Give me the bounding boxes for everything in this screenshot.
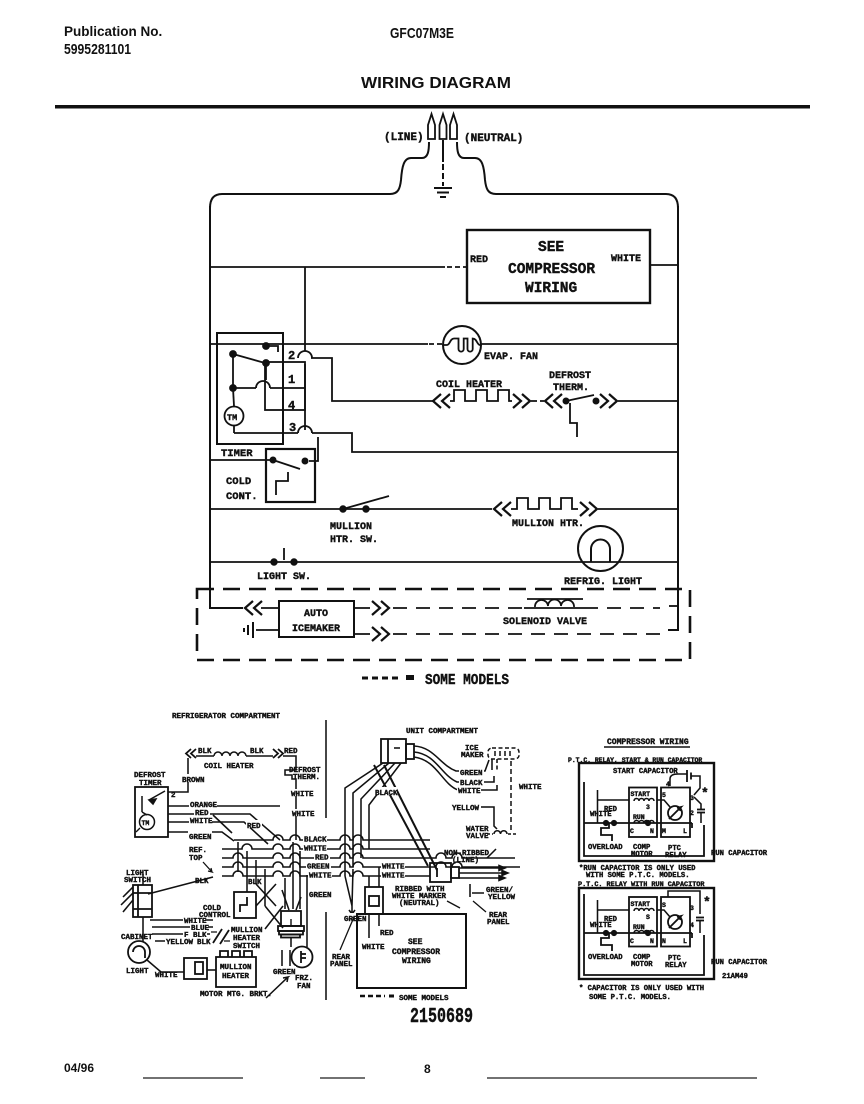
svg-text:SWITCH: SWITCH bbox=[233, 943, 260, 951]
svg-text:MULLION: MULLION bbox=[231, 927, 263, 935]
wire color labels cluster bbox=[165, 916, 211, 947]
svg-text:HEATER: HEATER bbox=[222, 973, 250, 981]
svg-text:START: START bbox=[631, 901, 651, 908]
svg-text:COIL HEATER: COIL HEATER bbox=[436, 380, 502, 391]
connector feed stubs bbox=[369, 867, 379, 887]
note 2 bbox=[579, 985, 704, 1002]
label NON-RIBBED (LINE) bbox=[444, 850, 490, 865]
connector chevron coil heater left bbox=[186, 749, 196, 758]
overload element 1 bbox=[601, 823, 612, 841]
pointer to plug bbox=[487, 849, 496, 858]
svg-text:COIL HEATER: COIL HEATER bbox=[204, 763, 254, 771]
label SEE COMPRESSOR WIRING lower bbox=[392, 938, 440, 966]
svg-text:SWITCH: SWITCH bbox=[124, 877, 151, 885]
fan mounting bracket bbox=[282, 950, 290, 970]
svg-text:YELLOW: YELLOW bbox=[488, 894, 516, 902]
white entry wire 1 bbox=[598, 790, 630, 823]
connector chevrons defrost right bbox=[600, 394, 617, 408]
svg-text:UNIT COMPARTMENT: UNIT COMPARTMENT bbox=[406, 728, 479, 736]
svg-text:COLD: COLD bbox=[226, 476, 251, 488]
label DEFROST THERM. bbox=[549, 371, 591, 394]
bundle color labels bbox=[303, 834, 405, 881]
header publication no bbox=[64, 24, 162, 58]
note 1 bbox=[579, 865, 696, 880]
terminal numbers bbox=[288, 349, 296, 435]
svg-text:COMPRESSOR: COMPRESSOR bbox=[508, 262, 595, 278]
svg-text:BLACK: BLACK bbox=[375, 790, 398, 798]
svg-text:WHITE: WHITE bbox=[590, 811, 612, 819]
see compressor wiring box bbox=[467, 230, 650, 303]
auto icemaker box bbox=[279, 601, 354, 637]
wires to switch cluster bbox=[150, 920, 213, 941]
svg-text:(LINE): (LINE) bbox=[384, 132, 424, 144]
run winding coil 2 bbox=[634, 931, 654, 934]
svg-text:COMPRESSOR WIRING: COMPRESSOR WIRING bbox=[607, 738, 689, 747]
timer contacts bbox=[230, 343, 278, 433]
compartment divider line upper bbox=[325, 720, 327, 818]
svg-text:L: L bbox=[683, 828, 687, 835]
svg-text:WHITE: WHITE bbox=[155, 972, 178, 980]
start winding coil 1 bbox=[634, 799, 654, 802]
svg-text:C: C bbox=[630, 938, 634, 945]
main wire row 2 bbox=[584, 931, 692, 938]
svg-text:WHITE: WHITE bbox=[611, 254, 641, 265]
ptc relay box 1 bbox=[661, 788, 690, 838]
icemaker dashed connector bbox=[488, 748, 519, 759]
timer output wire red bbox=[168, 814, 280, 840]
plug prong ground bbox=[440, 114, 447, 139]
svg-text:2: 2 bbox=[288, 349, 295, 363]
evap fan motor bbox=[443, 326, 481, 364]
start row link to ptc 2 bbox=[657, 910, 670, 917]
main wire row 1 bbox=[584, 821, 692, 828]
cold control box bbox=[266, 449, 315, 502]
water valve coil dashed bbox=[487, 831, 516, 834]
ptc disc 2 bbox=[668, 915, 682, 929]
svg-text:VALVE: VALVE bbox=[466, 833, 489, 841]
label AUTO ICEMAKER bbox=[292, 609, 340, 635]
svg-text:3: 3 bbox=[690, 795, 694, 802]
label WATER VALVE bbox=[466, 826, 489, 841]
svg-text:5995281101: 5995281101 bbox=[64, 42, 131, 58]
timer output wire white bbox=[168, 822, 268, 844]
svg-text:MOTOR: MOTOR bbox=[631, 961, 653, 969]
svg-text:TM: TM bbox=[142, 820, 150, 827]
svg-text:BLK: BLK bbox=[198, 748, 212, 756]
svg-text:21AM49: 21AM49 bbox=[722, 973, 748, 981]
svg-text:* CAPACITOR IS ONLY USED WITH: * CAPACITOR IS ONLY USED WITH bbox=[579, 985, 704, 993]
component labels 2 bbox=[588, 954, 768, 981]
wire evap fan row left bbox=[210, 343, 443, 345]
cabinet outline right edge bbox=[668, 206, 678, 630]
wire into icemaker bbox=[261, 607, 279, 609]
compartment divider line lower bbox=[325, 912, 327, 1000]
svg-text:WIRING: WIRING bbox=[402, 957, 431, 966]
pointer neutral bbox=[447, 901, 460, 908]
footer bottom rule bbox=[143, 1077, 757, 1079]
ground symbol at cord bbox=[434, 188, 452, 197]
svg-text:CONTROL: CONTROL bbox=[199, 912, 231, 920]
label DEFROST THERM. lower bbox=[289, 767, 321, 782]
icemaker ground wire bbox=[256, 629, 279, 631]
svg-text:GREEN: GREEN bbox=[344, 916, 367, 924]
svg-text:RUN: RUN bbox=[633, 814, 645, 821]
svg-text:GREEN: GREEN bbox=[309, 892, 332, 900]
svg-text:BLK: BLK bbox=[197, 939, 211, 947]
label DEFROST TIMER bbox=[134, 772, 166, 788]
svg-text:COMPRESSOR: COMPRESSOR bbox=[392, 948, 440, 957]
svg-text:HEATER: HEATER bbox=[233, 935, 261, 943]
connector chevrons coil heater right bbox=[513, 394, 530, 408]
wire bundle row white2 bbox=[222, 871, 430, 876]
compressor shell outline 1 bbox=[584, 782, 704, 856]
mullion heater switch bbox=[340, 496, 389, 512]
label GREEN/YELLOW with tick bbox=[486, 887, 516, 902]
defrost thermostat bracket bbox=[570, 403, 577, 437]
connector stubs into compressor box bbox=[369, 914, 379, 938]
svg-text:(NEUTRAL): (NEUTRAL) bbox=[399, 900, 440, 908]
svg-text:N: N bbox=[662, 938, 666, 945]
comp motor box 2 bbox=[629, 897, 657, 947]
label MULLION HEATER SWITCH bbox=[231, 927, 263, 951]
svg-text:PANEL: PANEL bbox=[330, 961, 353, 969]
terminal hop arcs bbox=[256, 351, 312, 433]
svg-text:MULLION: MULLION bbox=[330, 522, 372, 533]
svg-text:REF.: REF. bbox=[189, 847, 207, 855]
timer motor TM bbox=[225, 407, 244, 426]
defrost thermostat switch bbox=[563, 395, 599, 404]
wire to defrost thermostat bbox=[531, 400, 544, 402]
svg-text:M: M bbox=[662, 828, 666, 835]
wire connector to heater bbox=[207, 969, 216, 971]
label WHITE on drop bbox=[290, 789, 315, 819]
plug prong NEUTRAL bbox=[450, 114, 457, 139]
top jumper wire 2 bbox=[668, 891, 700, 914]
overload element 2 bbox=[601, 933, 612, 951]
power cord outline into cabinet bbox=[210, 140, 678, 208]
svg-text:REFRIG. LIGHT: REFRIG. LIGHT bbox=[564, 577, 642, 588]
svg-text:TIMER: TIMER bbox=[221, 448, 253, 460]
wire cabinet light to connector bbox=[147, 960, 184, 972]
svg-text:*: * bbox=[703, 895, 711, 910]
label GREEN bbox=[188, 831, 212, 842]
dashed wire return row bbox=[393, 633, 668, 635]
svg-text:MULLION HTR.: MULLION HTR. bbox=[512, 519, 584, 530]
wire icemaker box to arrows bbox=[354, 608, 370, 634]
compressor shell outline 2 bbox=[584, 894, 704, 975]
svg-text:DEFROST: DEFROST bbox=[134, 772, 166, 780]
dashed wire solenoid row bbox=[393, 606, 678, 608]
wire line row to compressor box bbox=[210, 266, 466, 268]
run capacitor symbol 2 bbox=[696, 918, 704, 934]
svg-text:MOTOR: MOTOR bbox=[631, 851, 653, 859]
svg-text:5: 5 bbox=[662, 792, 666, 799]
svg-text:8: 8 bbox=[424, 1062, 431, 1076]
svg-text:RUN CAPACITOR: RUN CAPACITOR bbox=[711, 959, 768, 967]
wire drop to cold control bbox=[309, 437, 318, 461]
cabinet light bbox=[128, 941, 150, 963]
wire white drop bbox=[295, 782, 297, 840]
timer output wire orange bbox=[168, 805, 280, 807]
svg-text:ICEMAKER: ICEMAKER bbox=[292, 624, 340, 635]
label ORANGE bbox=[189, 800, 218, 810]
svg-text:N: N bbox=[650, 938, 654, 945]
white entry wire 2 bbox=[598, 900, 630, 933]
wire bundle row red bbox=[222, 853, 515, 858]
wire bundle row black bbox=[234, 835, 430, 840]
svg-text:SOME MODELS: SOME MODELS bbox=[399, 995, 449, 1003]
svg-text:AUTO: AUTO bbox=[304, 609, 328, 620]
label MULLION HTR. SW. bbox=[330, 522, 378, 546]
svg-text:GFC07M3E: GFC07M3E bbox=[390, 25, 454, 42]
svg-text:WITH SOME P.T.C. MODELS.: WITH SOME P.T.C. MODELS. bbox=[586, 872, 690, 880]
svg-text:1: 1 bbox=[288, 373, 295, 387]
svg-text:SEE: SEE bbox=[538, 240, 564, 256]
connector chevrons coil heater left bbox=[433, 394, 450, 408]
black mains diagonal pair bbox=[374, 765, 437, 870]
bundle vertical drops bbox=[238, 842, 307, 947]
label COLD CONTROL bbox=[199, 905, 231, 920]
label REF. TOP with pointer bbox=[189, 847, 207, 863]
compressor box 1 bbox=[579, 763, 714, 861]
refrigerator light bbox=[578, 526, 623, 571]
svg-text:WHITE: WHITE bbox=[362, 944, 385, 952]
label YELLOW with dash bbox=[452, 805, 497, 829]
svg-text:BLK: BLK bbox=[195, 878, 209, 886]
ptc relay box 2 bbox=[661, 897, 690, 947]
wire defrost to right edge bbox=[618, 400, 678, 402]
svg-text:SOLENOID VALVE: SOLENOID VALVE bbox=[503, 617, 587, 628]
svg-text:3: 3 bbox=[690, 905, 694, 912]
funnel diagonals into connector bbox=[282, 890, 301, 910]
unit compartment connector bbox=[381, 739, 414, 763]
mullion heater box bbox=[216, 951, 256, 987]
icemaker ground symbol bbox=[244, 622, 253, 638]
bundle wires from connector down-left bbox=[345, 763, 401, 876]
legend some models lower bbox=[360, 995, 449, 1004]
svg-text:OVERLOAD: OVERLOAD bbox=[588, 844, 623, 852]
start row link to ptc 1 bbox=[657, 800, 670, 807]
connector chevron coil heater right bbox=[273, 749, 283, 758]
svg-text:FAN: FAN bbox=[297, 983, 311, 991]
label ICE MAKER bbox=[461, 745, 484, 760]
see compressor wiring box lower bbox=[357, 914, 466, 988]
wire mullion to right edge bbox=[598, 508, 678, 510]
wire mullion heater row bbox=[210, 508, 492, 510]
start winding coil 2 bbox=[634, 909, 654, 912]
svg-text:SOME P.T.C. MODELS.: SOME P.T.C. MODELS. bbox=[589, 994, 671, 1002]
svg-text:S: S bbox=[646, 914, 650, 921]
cold control box lower bbox=[234, 892, 256, 918]
compressor box 2 bbox=[579, 888, 714, 979]
wire timer contact 3 row bbox=[234, 433, 678, 452]
svg-text:THERM.: THERM. bbox=[293, 774, 320, 782]
timer terminal block bbox=[265, 362, 305, 410]
center connector over compressor box bbox=[365, 887, 383, 914]
wire labels 2 bbox=[590, 916, 618, 930]
label BLACK bbox=[374, 787, 398, 798]
svg-text:FRZ.: FRZ. bbox=[295, 975, 313, 983]
wire color labels icemaker fan bbox=[457, 768, 484, 796]
svg-text:WHITE: WHITE bbox=[309, 873, 332, 881]
svg-text:RED: RED bbox=[247, 823, 261, 831]
wire light switch row bbox=[210, 561, 678, 563]
wire bundle row white1 bbox=[222, 844, 430, 849]
defrost thermostat symbol bbox=[285, 767, 296, 782]
svg-text:START CAPACITOR: START CAPACITOR bbox=[613, 768, 678, 776]
light switch diagonal feed bbox=[148, 877, 213, 894]
timer box bbox=[217, 333, 283, 444]
motor winding labels 2 bbox=[630, 901, 694, 945]
svg-text:RED: RED bbox=[284, 748, 298, 756]
svg-text:OVERLOAD: OVERLOAD bbox=[588, 954, 623, 962]
label GREEN center bbox=[343, 913, 368, 924]
label SEE COMPRESSOR WIRING bbox=[508, 240, 595, 297]
svg-text:REFRIGERATOR COMPARTMENT: REFRIGERATOR COMPARTMENT bbox=[172, 713, 281, 721]
wire brown drop from chevron bbox=[168, 758, 188, 792]
connector chevrons icemaker bbox=[245, 601, 262, 615]
defrost timer cam contact bbox=[142, 791, 165, 815]
svg-text:MAKER: MAKER bbox=[461, 752, 484, 760]
coil heater element bbox=[450, 390, 512, 401]
molex connector above fan bbox=[278, 911, 304, 947]
mullion heater switch symbol bbox=[211, 929, 230, 944]
light switch bbox=[271, 548, 297, 565]
svg-text:C: C bbox=[630, 828, 634, 835]
label RED mid bbox=[246, 820, 262, 831]
cabinet outline left edge bbox=[210, 206, 243, 608]
svg-text:SEE: SEE bbox=[408, 938, 423, 947]
svg-text:LIGHT SW.: LIGHT SW. bbox=[257, 572, 311, 583]
svg-text:RED: RED bbox=[470, 255, 488, 266]
svg-text:WIRING DIAGRAM: WIRING DIAGRAM bbox=[361, 75, 511, 92]
connector chevrons defrost left bbox=[545, 394, 562, 408]
mullion heater element bbox=[511, 498, 578, 509]
label WHITE bbox=[189, 816, 213, 826]
legend some models bbox=[362, 672, 509, 689]
svg-text:GREEN: GREEN bbox=[460, 770, 483, 778]
svg-text:BLK: BLK bbox=[248, 879, 262, 887]
label MULLION HEATER inside bbox=[220, 964, 252, 981]
label RED bbox=[194, 808, 210, 818]
wire light switch to feed row bbox=[142, 874, 144, 885]
timer output wire green bbox=[168, 832, 234, 841]
icemaker dashed return bbox=[510, 761, 512, 831]
svg-text:TOP: TOP bbox=[189, 855, 203, 863]
label GREEN mid-left bbox=[308, 889, 333, 900]
svg-text:RED: RED bbox=[380, 930, 394, 938]
icemaker output arrows row2 bbox=[372, 627, 389, 641]
wire evap fan row right bbox=[481, 343, 678, 345]
component labels 1 bbox=[588, 844, 768, 860]
label GREEN with arrow to fan bbox=[266, 966, 296, 998]
label REAR PANEL left with pointer bbox=[330, 954, 353, 969]
wire from timer terminal 2 down to heater row bbox=[311, 358, 433, 401]
fan of wires to icemaker area bbox=[414, 746, 497, 790]
wire labels 1 bbox=[590, 806, 618, 819]
coil heater resistor bbox=[214, 752, 246, 756]
svg-text:RELAY: RELAY bbox=[665, 852, 687, 860]
svg-text:RUN CAPACITOR: RUN CAPACITOR bbox=[711, 850, 768, 858]
svg-text:PANEL: PANEL bbox=[487, 919, 510, 927]
some models dashed enclosure bbox=[197, 589, 690, 660]
icemaker output arrows row1 bbox=[372, 601, 389, 615]
svg-text:WHITE: WHITE bbox=[458, 788, 481, 796]
comp motor box 1 bbox=[629, 788, 657, 838]
connector block left bbox=[184, 958, 207, 979]
plug output wires with arrows bbox=[459, 866, 508, 881]
run capacitor symbol 1 bbox=[694, 797, 705, 823]
solenoid valve coil bbox=[524, 599, 584, 608]
crossing diagonals bbox=[213, 815, 283, 929]
header rule bbox=[55, 105, 810, 109]
svg-text:YELLOW: YELLOW bbox=[452, 805, 480, 813]
defrost timer box bbox=[135, 787, 168, 837]
svg-text:*: * bbox=[701, 786, 709, 801]
label FRZ. FAN bbox=[295, 975, 313, 991]
svg-text:WHITE: WHITE bbox=[291, 791, 314, 799]
svg-text:3: 3 bbox=[646, 804, 650, 811]
svg-text:LIGHT: LIGHT bbox=[126, 968, 149, 976]
cold control bracket bbox=[276, 472, 288, 495]
motor winding labels 1 bbox=[630, 781, 694, 835]
label REAR PANEL right with pointer bbox=[487, 912, 510, 927]
label COLD CONT. bbox=[226, 476, 258, 503]
svg-text:2: 2 bbox=[690, 810, 694, 817]
green funnel wires bbox=[345, 869, 355, 914]
svg-text:4: 4 bbox=[690, 922, 694, 929]
svg-text:(NEUTRAL): (NEUTRAL) bbox=[464, 133, 523, 145]
wire to coil heater bbox=[196, 755, 214, 757]
label RIBBED WITH WHITE MARKER (NEUTRAL) bbox=[392, 886, 447, 908]
wire left edge to cold control bbox=[210, 459, 270, 461]
svg-text:GREEN: GREEN bbox=[273, 969, 296, 977]
svg-text:SOME MODELS: SOME MODELS bbox=[425, 672, 509, 689]
svg-text:BROWN: BROWN bbox=[182, 777, 205, 785]
svg-text:(LINE): (LINE) bbox=[452, 857, 479, 865]
svg-text:WHITE: WHITE bbox=[190, 818, 213, 826]
svg-text:RUN: RUN bbox=[633, 924, 645, 931]
svg-text:BLK: BLK bbox=[250, 748, 264, 756]
svg-text:4: 4 bbox=[288, 399, 295, 413]
svg-text:WHITE: WHITE bbox=[519, 784, 542, 792]
svg-text:START: START bbox=[631, 791, 651, 798]
wire white row from compressor box bbox=[650, 264, 678, 266]
label BROWN bbox=[182, 774, 206, 785]
freezer fan motor bbox=[292, 947, 313, 968]
svg-text:TM: TM bbox=[227, 413, 237, 423]
svg-text:CONT.: CONT. bbox=[226, 491, 258, 503]
wire bundle row green bbox=[222, 862, 520, 867]
svg-text:WHITE: WHITE bbox=[590, 922, 612, 930]
svg-text:RELAY: RELAY bbox=[665, 962, 687, 970]
svg-text:EVAP. FAN: EVAP. FAN bbox=[484, 352, 538, 363]
svg-text:MULLION: MULLION bbox=[220, 964, 252, 972]
svg-text:WHITE: WHITE bbox=[292, 811, 315, 819]
svg-text:Publication No.: Publication No. bbox=[64, 24, 162, 39]
svg-text:S: S bbox=[662, 902, 666, 909]
label LIGHT SWITCH bbox=[124, 870, 151, 885]
plug prong LINE bbox=[428, 114, 435, 139]
svg-text:DEFROST: DEFROST bbox=[549, 371, 591, 382]
svg-text:2: 2 bbox=[171, 792, 176, 800]
svg-text:N: N bbox=[650, 828, 654, 835]
svg-text:04/96: 04/96 bbox=[64, 1061, 94, 1075]
svg-text:THERM.: THERM. bbox=[553, 383, 589, 394]
svg-text:WHITE: WHITE bbox=[382, 873, 405, 881]
non-ribbed line plug bbox=[430, 863, 459, 882]
icemaker connector tails bbox=[492, 759, 497, 770]
